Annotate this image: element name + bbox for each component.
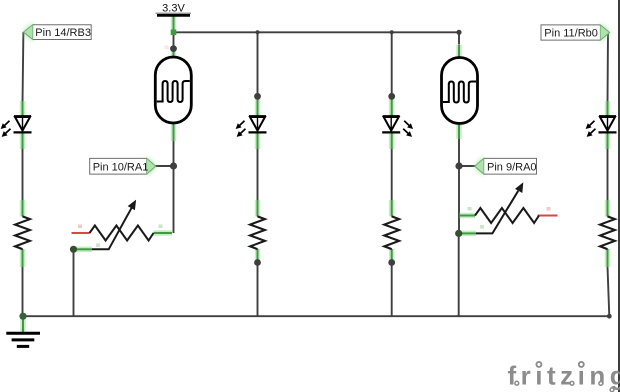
node LDR1 top bbox=[170, 45, 177, 52]
wire col3 rail to LED3 bbox=[391, 32, 393, 96]
resistor R3 bbox=[384, 216, 399, 249]
wire col2 R2 to ground rail bbox=[257, 263, 259, 317]
fritzing logo bbox=[508, 361, 620, 392]
node rail LDR2 corner bbox=[456, 30, 461, 35]
potentiometer VR1 arrowhead bbox=[129, 201, 136, 210]
leg pot2 right terminal (red, unconnected) bbox=[538, 215, 558, 217]
potentiometer VR2 wiper arm bbox=[476, 191, 518, 234]
leg LED1 top bbox=[22, 101, 24, 116]
wire pin9 node to label tip bbox=[459, 165, 477, 167]
leg LDR1 bottom bbox=[173, 124, 175, 142]
potentiometer VR1 wiper arm bbox=[92, 207, 132, 249]
node pin10 bbox=[170, 162, 177, 169]
wire LDR1 bottom to pot junction bbox=[173, 141, 175, 234]
wire col4 LED4 to R4 bbox=[607, 149, 609, 200]
wire LDR2 top stub from rail corner bbox=[458, 32, 460, 44]
label Pin 10/RA1 bbox=[90, 157, 156, 175]
node pot1 wiper bbox=[70, 246, 77, 253]
leg pot2 left terminal bbox=[460, 215, 475, 217]
wire col3 R3 to ground rail bbox=[391, 263, 393, 317]
photoresistor LDR2 bbox=[442, 58, 478, 124]
right screen-edge border bbox=[618, 0, 620, 392]
node R2 bottom bbox=[254, 259, 261, 266]
svg-text:3.3V: 3.3V bbox=[162, 3, 185, 15]
LED D3 (arrows right) bbox=[382, 116, 412, 136]
node pot2 wiper bbox=[455, 230, 462, 237]
wire col4 R4 to ground rail corner bbox=[608, 267, 610, 316]
LED D2 bbox=[236, 116, 266, 136]
potentiometer VR2 arrowhead bbox=[516, 183, 523, 192]
leg LED3 bottom bbox=[391, 133, 393, 149]
photoresistor LDR1 bbox=[155, 57, 191, 123]
leg ground bbox=[22, 317, 24, 332]
leg pot1 wiper bbox=[76, 248, 92, 250]
wire pin10 label tip to node bbox=[155, 165, 174, 167]
leg pot1 left terminal (red, unconnected) bbox=[72, 232, 90, 234]
wire pot2 wiper down leg bbox=[458, 233, 460, 316]
node ground junction bbox=[19, 313, 26, 320]
potentiometer VR2 zigzag bbox=[475, 208, 539, 223]
wire col2 rail to LED2 bbox=[257, 32, 259, 96]
wire LDR1 top stub bbox=[173, 32, 175, 48]
LED D1 bbox=[1, 116, 31, 136]
leg R2 bottom bbox=[257, 249, 259, 262]
resistor R1 bbox=[15, 216, 30, 249]
node LED2 top bbox=[254, 93, 261, 100]
svg-text:frıtzıng: frıtzıng bbox=[508, 361, 620, 391]
LED D4 bbox=[586, 116, 616, 136]
leg R1 bottom bbox=[22, 249, 24, 267]
node rail col2 bbox=[256, 30, 260, 34]
wire col1 R1 to ground junction bbox=[22, 267, 24, 316]
node R3 bottom bbox=[388, 259, 395, 266]
leg LED1 bottom bbox=[22, 133, 24, 149]
wire col1 LED1 to R1 bbox=[22, 149, 24, 200]
leg pot2 wiper bbox=[461, 232, 476, 234]
label Pin 9/RA0 bbox=[475, 157, 537, 175]
wire col4 from Pin11 tip down to LED4 bbox=[607, 33, 610, 104]
resistor R4 bbox=[600, 216, 615, 249]
svg-text:Pin 14/RB3: Pin 14/RB3 bbox=[35, 27, 91, 39]
wire col1 from Pin14 tip down to LED1 bbox=[22, 32, 25, 103]
leg 3.3V supply bbox=[173, 16, 175, 32]
svg-text:Pin 11/Rb0: Pin 11/Rb0 bbox=[544, 27, 598, 39]
leg LED4 bottom bbox=[607, 133, 609, 149]
wire col3 LED3 to R3 bbox=[391, 149, 393, 200]
leg LED2 top bbox=[257, 97, 259, 116]
label Pin 14/RB3 bbox=[24, 23, 92, 41]
wire top rail 3.3V bbox=[174, 31, 460, 33]
ground symbol bbox=[6, 333, 40, 346]
node pin9 bbox=[455, 162, 462, 169]
leg R2 top bbox=[257, 200, 259, 217]
node rail col3 bbox=[390, 30, 394, 34]
leg LED3 top bbox=[391, 97, 393, 116]
power supply 3.3V bar bbox=[157, 14, 190, 17]
faint tiny pin-name ticks bbox=[78, 46, 551, 248]
wire pot1 wiper down leg bbox=[73, 249, 75, 316]
wire LDR2 bottom to pin9 node and pot2 bbox=[458, 139, 460, 234]
leg pot1 right terminal bbox=[154, 232, 173, 234]
power supply 3.3V underline bbox=[156, 12, 192, 14]
leg LDR2 top bbox=[458, 45, 460, 59]
resistor R2 bbox=[250, 216, 265, 249]
leg R3 bottom bbox=[391, 249, 393, 262]
leg LED4 top bbox=[607, 101, 609, 116]
leg LED2 bottom bbox=[257, 133, 259, 149]
leg R1 top bbox=[22, 200, 24, 217]
leg R4 bottom bbox=[607, 249, 609, 267]
wire ground rail bbox=[23, 315, 609, 317]
potentiometer VR1 zigzag bbox=[90, 226, 154, 241]
leg LDR1 top bbox=[173, 49, 175, 57]
wire col2 LED2 to R2 bbox=[257, 149, 259, 200]
node ground rail right corner bbox=[607, 314, 612, 319]
node LED3 top bbox=[388, 93, 395, 100]
leg LDR2 bottom bbox=[458, 122, 460, 139]
label Pin 11/Rb0 bbox=[541, 24, 610, 42]
svg-text:Pin 10/RA1: Pin 10/RA1 bbox=[93, 161, 149, 173]
leg R4 top bbox=[607, 200, 609, 217]
svg-text:Pin 9/RA0: Pin 9/RA0 bbox=[487, 161, 537, 173]
leg R3 top bbox=[391, 200, 393, 217]
node 3.3V rail junction bbox=[171, 30, 177, 36]
